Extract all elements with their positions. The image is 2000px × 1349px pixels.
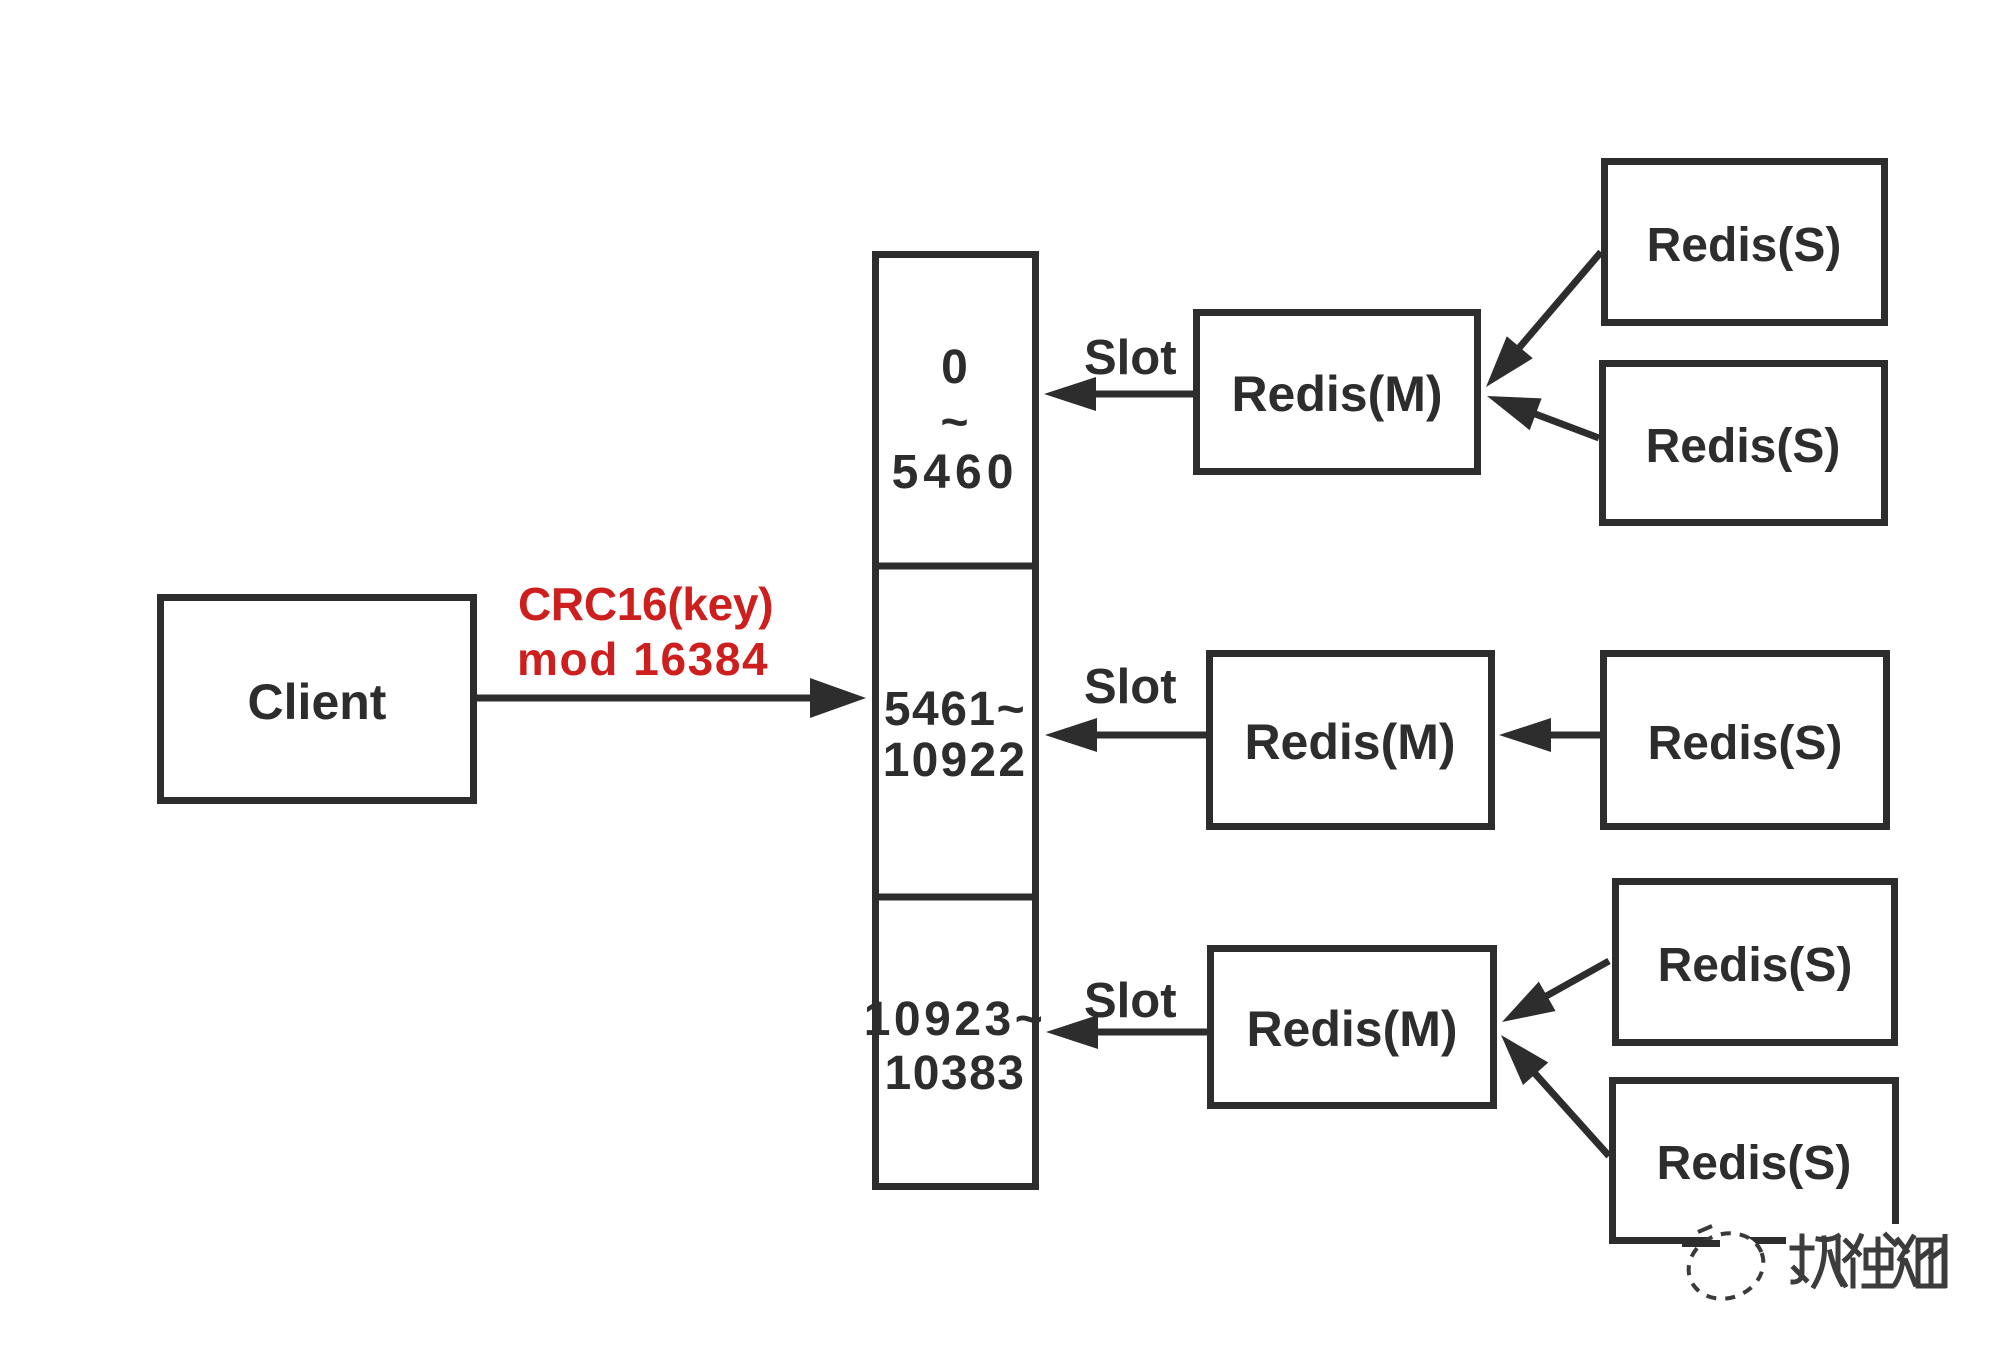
svg-text:10923~: 10923~ xyxy=(864,993,1047,1046)
svg-text:Slot: Slot xyxy=(1084,331,1177,385)
svg-text:Slot: Slot xyxy=(1084,660,1177,714)
svg-text:CRC16(key): CRC16(key) xyxy=(518,578,773,630)
svg-text:Client: Client xyxy=(248,674,387,730)
svg-text:Redis(S): Redis(S) xyxy=(1657,1137,1852,1190)
svg-text:0: 0 xyxy=(941,341,969,394)
svg-text:~: ~ xyxy=(940,396,969,449)
svg-text:Redis(S): Redis(S) xyxy=(1658,939,1853,992)
svg-text:Redis(M): Redis(M) xyxy=(1244,714,1455,770)
svg-text:Slot: Slot xyxy=(1084,974,1177,1028)
svg-text:5460: 5460 xyxy=(892,446,1019,499)
svg-text:5461~: 5461~ xyxy=(884,683,1026,736)
svg-text:10383: 10383 xyxy=(885,1047,1026,1100)
svg-text:mod 16384: mod 16384 xyxy=(517,633,769,685)
svg-text:10922: 10922 xyxy=(883,734,1027,787)
svg-text:Redis(S): Redis(S) xyxy=(1646,420,1841,473)
svg-text:Redis(S): Redis(S) xyxy=(1647,219,1842,272)
svg-text:Redis(M): Redis(M) xyxy=(1246,1001,1457,1057)
svg-text:Redis(S): Redis(S) xyxy=(1648,717,1843,770)
svg-text:Redis(M): Redis(M) xyxy=(1231,366,1442,422)
